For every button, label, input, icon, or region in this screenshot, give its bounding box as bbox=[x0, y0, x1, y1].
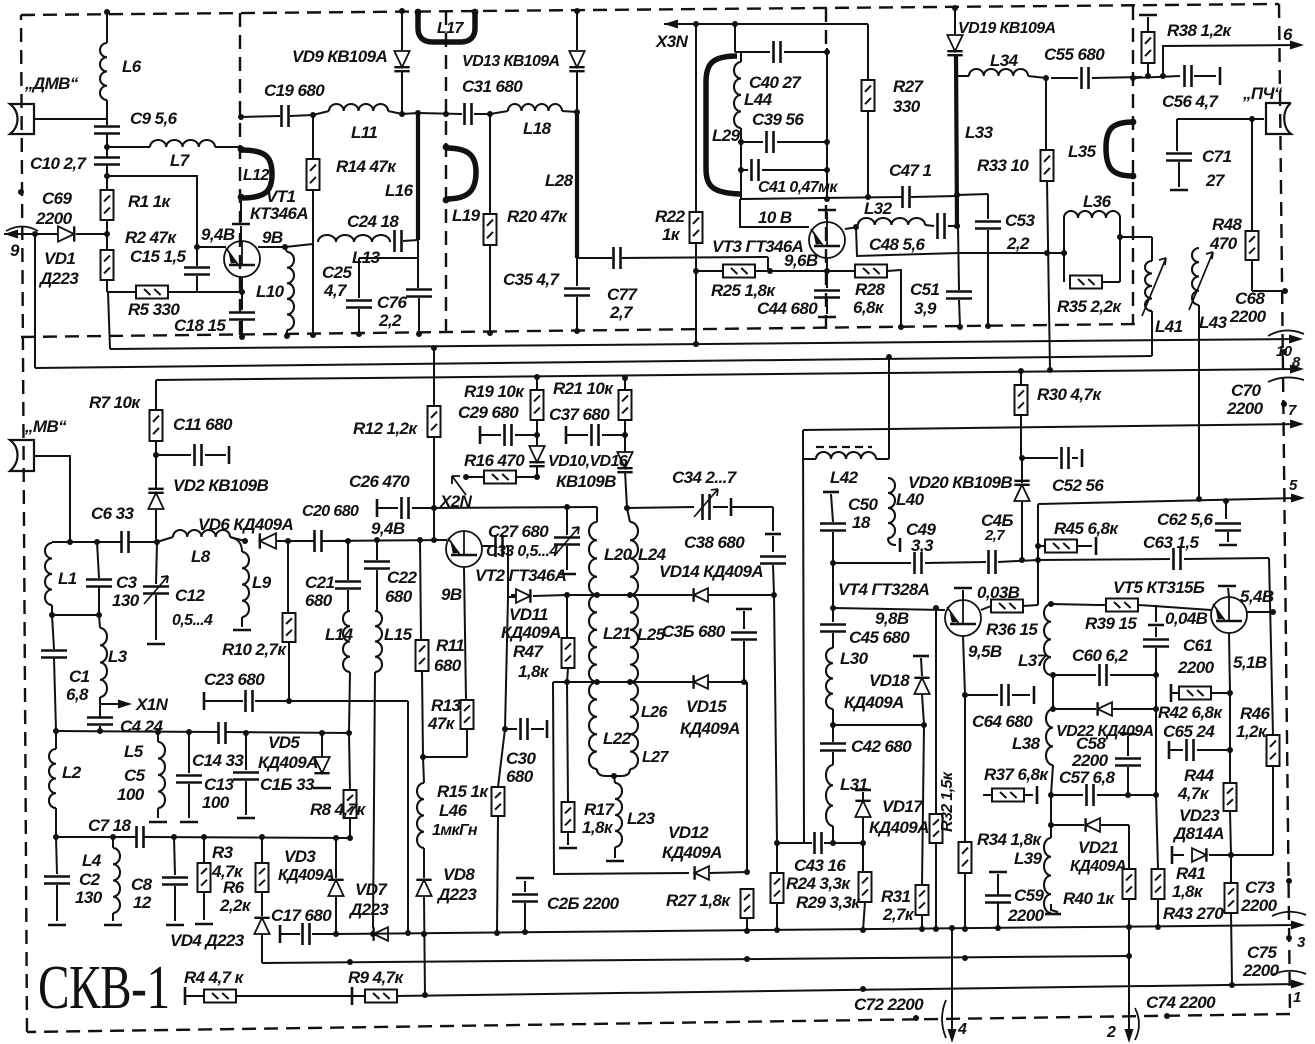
wire L28 bottom bbox=[576, 258, 578, 286]
svg-text:330: 330 bbox=[893, 97, 921, 116]
varicap VD6 bbox=[260, 533, 276, 548]
wire L1/C3 bottom row bbox=[52, 614, 99, 616]
resistor R10 bbox=[283, 613, 296, 642]
inductor L38 bbox=[1046, 709, 1053, 765]
svg-text:С25: С25 bbox=[322, 263, 353, 282]
svg-text:С63 1,5: С63 1,5 bbox=[1143, 533, 1199, 552]
wire oscillator bottom row 10V bbox=[741, 197, 902, 199]
capacitor C51 bbox=[958, 226, 959, 290]
resistor R48 column bbox=[1251, 119, 1253, 231]
svg-text:С65 24: С65 24 bbox=[1163, 722, 1215, 741]
VT3 emitter bbox=[826, 258, 828, 271]
inductor L7 bbox=[150, 140, 215, 147]
capacitor C29 row bbox=[479, 426, 482, 444]
inductor L41 variable bbox=[1145, 261, 1152, 311]
capacitor C76 bbox=[417, 258, 419, 288]
svg-text:С47 1: С47 1 bbox=[889, 161, 932, 180]
capacitor C49 bbox=[833, 562, 911, 564]
svg-text:L14: L14 bbox=[325, 625, 354, 644]
svg-text:VD7: VD7 bbox=[355, 880, 388, 899]
svg-text:L6: L6 bbox=[122, 57, 142, 76]
svg-text:С35 4,7: С35 4,7 bbox=[503, 270, 560, 289]
inductor L17 thick loop bbox=[418, 13, 475, 42]
wire PCH row bbox=[1177, 118, 1264, 120]
inductor L36 bbox=[1064, 211, 1120, 218]
resistor R15 column bbox=[505, 597, 508, 729]
svg-text:С27 680: С27 680 bbox=[488, 522, 549, 541]
inductor L32 bbox=[858, 218, 925, 225]
capacitor C17 row bbox=[279, 925, 282, 943]
resistor R44 bbox=[1229, 750, 1231, 783]
capacitor C45 bbox=[832, 585, 834, 622]
svg-text:С10 2,7: С10 2,7 bbox=[30, 154, 87, 173]
capacitor C65 row bbox=[1229, 693, 1231, 750]
svg-text:L4: L4 bbox=[82, 851, 102, 870]
svg-text:С23 680: С23 680 bbox=[204, 670, 265, 689]
wire tank mid row bbox=[511, 594, 515, 596]
bus wire 2 tuning line bbox=[35, 356, 1152, 368]
svg-text:КД409А: КД409А bbox=[278, 867, 334, 884]
capacitor C59 bbox=[989, 871, 1007, 874]
svg-text:С60 6,2: С60 6,2 bbox=[1072, 646, 1128, 665]
svg-text:2,7: 2,7 bbox=[609, 303, 634, 322]
svg-text:С42 680: С42 680 bbox=[851, 737, 912, 756]
svg-text:VD5: VD5 bbox=[268, 733, 300, 752]
svg-text:КД409А: КД409А bbox=[662, 843, 722, 862]
capacitor C57 row bbox=[1051, 794, 1083, 796]
svg-text:R1 1к: R1 1к bbox=[128, 192, 172, 211]
svg-text:С52 56: С52 56 bbox=[1052, 476, 1104, 495]
inductor L15 bbox=[375, 611, 382, 672]
svg-text:VD17: VD17 bbox=[882, 797, 924, 816]
node X3N branch bbox=[693, 21, 699, 27]
wire C10 down to R1 bbox=[106, 165, 108, 190]
svg-text:R38 1,2к: R38 1,2к bbox=[1167, 21, 1232, 40]
wire W6 main row bbox=[1038, 559, 1170, 560]
svg-text:R44: R44 bbox=[1184, 766, 1215, 785]
svg-text:С2: С2 bbox=[79, 870, 101, 889]
capacitor C58 bbox=[1120, 733, 1136, 736]
svg-text:2200: 2200 bbox=[1229, 307, 1267, 326]
svg-text:VD15: VD15 bbox=[686, 697, 727, 716]
resistor R26 lower bbox=[746, 682, 748, 872]
node L7 tap bbox=[104, 144, 110, 150]
svg-text:18: 18 bbox=[852, 513, 871, 532]
svg-text:С3: С3 bbox=[116, 573, 138, 592]
svg-text:VT4 ГТ328А: VT4 ГТ328А bbox=[838, 580, 930, 599]
inductor L2 bbox=[49, 749, 56, 808]
svg-text:3: 3 bbox=[1297, 934, 1306, 951]
svg-text:R3: R3 bbox=[212, 843, 234, 862]
svg-text:2200: 2200 bbox=[1007, 906, 1045, 925]
svg-text:R32 1,5к: R32 1,5к bbox=[939, 771, 956, 832]
resistor R10 column bbox=[287, 541, 289, 613]
svg-text:L44: L44 bbox=[744, 90, 773, 109]
capacitor C13 bbox=[188, 733, 190, 773]
svg-text:„ПЧ“: „ПЧ“ bbox=[1242, 84, 1283, 103]
node oscillator top bbox=[732, 21, 738, 27]
node L1 top bbox=[51, 605, 53, 615]
resistor R16 bbox=[484, 471, 516, 484]
X1N arrow bbox=[99, 697, 101, 717]
inductor L5 bbox=[158, 742, 165, 808]
capacitor C43 row bbox=[777, 842, 812, 844]
svg-text:Д223: Д223 bbox=[38, 269, 79, 288]
svg-text:2200: 2200 bbox=[1071, 751, 1109, 770]
capacitor C41 row bbox=[738, 167, 744, 173]
svg-text:R2 47к: R2 47к bbox=[125, 228, 177, 247]
svg-text:9В: 9В bbox=[262, 228, 283, 247]
pin 4 shield arc bbox=[942, 1000, 946, 1038]
capacitor C52 row bbox=[1022, 457, 1058, 459]
wire tank second row bbox=[553, 681, 744, 683]
svg-text:R7 10к: R7 10к bbox=[89, 393, 141, 412]
svg-text:С11 680: С11 680 bbox=[173, 415, 233, 434]
svg-text:С1: С1 bbox=[69, 667, 90, 686]
resistor R1 bbox=[101, 190, 114, 220]
svg-text:R25 1,8к: R25 1,8к bbox=[711, 281, 776, 300]
svg-text:L27: L27 bbox=[642, 749, 669, 766]
wire C53 row bbox=[954, 192, 960, 198]
svg-text:С44 680: С44 680 bbox=[757, 299, 818, 318]
svg-text:L33: L33 bbox=[965, 123, 994, 142]
svg-text:4,7: 4,7 bbox=[323, 281, 348, 300]
svg-text:Д223: Д223 bbox=[436, 885, 477, 904]
varicap VD2 bbox=[148, 493, 163, 509]
svg-text:2200: 2200 bbox=[1242, 961, 1280, 980]
X3N arrow bbox=[664, 20, 678, 29]
capacitor C15 bbox=[184, 268, 210, 275]
svg-text:VT5 КТ315Б: VT5 КТ315Б bbox=[1113, 578, 1205, 597]
resistor R38 bbox=[1142, 32, 1155, 63]
svg-text:С1Б 33: С1Б 33 bbox=[260, 775, 315, 794]
svg-text:С37 680: С37 680 bbox=[549, 405, 610, 424]
svg-text:470: 470 bbox=[1209, 234, 1238, 253]
feedback wire from C10 node to VT1 base bbox=[107, 176, 197, 266]
svg-text:R40 1к: R40 1к bbox=[1063, 889, 1115, 908]
svg-text:R11: R11 bbox=[436, 636, 464, 655]
wire 10V to VT3 base bbox=[740, 199, 809, 227]
wire MV to C6 row bbox=[34, 456, 70, 542]
capacitor C33 variable bbox=[566, 507, 568, 535]
inductor L10 bbox=[287, 252, 294, 330]
inductor L8 bbox=[173, 530, 230, 537]
svg-text:130: 130 bbox=[75, 888, 103, 907]
wire L36 to L41 bbox=[1120, 236, 1152, 238]
resistor R20 column bbox=[489, 114, 491, 214]
wire L30 to VD18 row bbox=[833, 724, 924, 726]
resistor R22 column bbox=[695, 24, 697, 212]
svg-text:1,2к: 1,2к bbox=[1236, 722, 1268, 741]
bus wire 5 to pin 5 bbox=[1038, 498, 1299, 504]
wire L11 node to L16 bbox=[402, 113, 418, 114]
diode VD17 bbox=[855, 789, 871, 792]
node pin9 branch bbox=[32, 231, 38, 237]
svg-text:R48: R48 bbox=[1212, 215, 1243, 234]
VT2 emitter column bbox=[464, 567, 466, 700]
svg-text:С18 15: С18 15 bbox=[174, 316, 226, 335]
svg-text:3,9: 3,9 bbox=[914, 299, 937, 318]
svg-text:680: 680 bbox=[434, 656, 462, 675]
svg-text:7: 7 bbox=[1288, 402, 1297, 419]
wire C23 row to corner x408 bbox=[289, 700, 408, 702]
svg-text:VD6 КД409А: VD6 КД409А bbox=[198, 515, 293, 534]
inductor L16 thick line bbox=[416, 113, 420, 240]
svg-text:С26 470: С26 470 bbox=[349, 472, 410, 491]
resistor R21 column bbox=[624, 378, 626, 390]
capacitor C36 bbox=[736, 608, 752, 611]
svg-text:0,5...4: 0,5...4 bbox=[172, 612, 213, 629]
diode VD1 bbox=[58, 226, 74, 241]
svg-text:Х1N: Х1N bbox=[135, 695, 169, 714]
svg-text:R24 3,3к: R24 3,3к bbox=[786, 874, 851, 893]
diode VD15 bbox=[694, 675, 708, 689]
wire row y837 bbox=[56, 836, 136, 838]
svg-text:L42: L42 bbox=[830, 468, 859, 487]
svg-text:С43 16: С43 16 bbox=[794, 856, 846, 875]
svg-text:L34: L34 bbox=[990, 51, 1019, 70]
UHF box bottom dashed line bbox=[21, 324, 1137, 337]
capacitor C30 row bbox=[505, 728, 517, 730]
inductor L23 bbox=[615, 783, 622, 847]
emitter wire to L10 bbox=[258, 246, 285, 248]
svg-text:С31 680: С31 680 bbox=[462, 77, 523, 96]
dashed coupling mark above L42 bbox=[816, 446, 872, 448]
varicap VD13 bbox=[569, 51, 584, 67]
svg-text:R5 330: R5 330 bbox=[128, 300, 180, 319]
resistor R41 bbox=[1230, 855, 1232, 883]
svg-text:VT2 ГТ346А: VT2 ГТ346А bbox=[475, 566, 567, 585]
pin 4 column bbox=[951, 928, 953, 1037]
svg-text:VD14 КД409А: VD14 КД409А bbox=[659, 562, 763, 581]
capacitor C73 feedthrough bbox=[1286, 878, 1292, 884]
wire emitter rail right bbox=[196, 280, 198, 292]
bus wire 1 to pin 10 bbox=[110, 339, 1297, 349]
diode VD5 bbox=[321, 733, 323, 757]
VT3 collector to L32 bbox=[845, 227, 858, 229]
capacitor C34 variable bbox=[703, 494, 710, 520]
svg-text:9,5В: 9,5В bbox=[968, 642, 1002, 661]
pin 10 shield arc bbox=[1268, 330, 1304, 336]
svg-text:С70: С70 bbox=[1231, 381, 1262, 400]
svg-text:L15: L15 bbox=[384, 625, 413, 644]
capacitor C26 row bbox=[376, 499, 379, 517]
capacitor C55 bbox=[1082, 67, 1089, 89]
UHF box divider dashed x=240 bbox=[239, 13, 241, 336]
svg-text:С64 680: С64 680 bbox=[972, 712, 1033, 731]
wire L16 node to C31 bbox=[418, 113, 462, 114]
capacitor C77 bbox=[614, 247, 621, 269]
svg-text:VD18: VD18 bbox=[869, 671, 910, 690]
capacitor C8 bbox=[174, 837, 175, 875]
svg-text:„ДМВ“: „ДМВ“ bbox=[24, 74, 79, 93]
svg-text:R15 1к: R15 1к bbox=[437, 782, 489, 801]
capacitor C64 row bbox=[965, 694, 998, 696]
svg-text:КД409А: КД409А bbox=[844, 693, 904, 712]
resistor R9 row bbox=[351, 987, 354, 1005]
wire tank top left bbox=[434, 507, 597, 508]
wire R1 to R2 bbox=[106, 220, 108, 250]
svg-text:С17 680: С17 680 bbox=[271, 906, 332, 925]
capacitor C4 bbox=[87, 718, 113, 725]
svg-text:С73: С73 bbox=[1245, 878, 1276, 897]
diode VD18 bbox=[913, 655, 929, 658]
svg-text:2,2к: 2,2к bbox=[219, 896, 252, 915]
diode VD4 bbox=[261, 892, 263, 916]
svg-text:С76: С76 bbox=[377, 293, 408, 312]
svg-text:Д814А: Д814А bbox=[1172, 824, 1224, 843]
svg-text:С34 2...7: С34 2...7 bbox=[672, 468, 738, 487]
svg-text:1к: 1к bbox=[662, 225, 681, 244]
resistor R35 bbox=[1070, 276, 1102, 289]
node top border x107 bbox=[104, 9, 110, 15]
svg-text:R47: R47 bbox=[513, 642, 545, 661]
capacitor C22 bbox=[376, 540, 378, 560]
capacitor C72 feedthrough bbox=[913, 1015, 919, 1021]
svg-text:VD11: VD11 bbox=[509, 605, 548, 624]
inductor L4 bbox=[113, 848, 120, 913]
inductor L6 bbox=[100, 43, 107, 100]
resistor R12 column bbox=[433, 348, 435, 406]
svg-text:R27: R27 bbox=[893, 77, 925, 96]
UHF box divider dashed x=446 bbox=[445, 11, 447, 334]
capacitor C37 row bbox=[565, 426, 568, 444]
varicap VD10 bbox=[529, 446, 544, 462]
svg-text:1,8к: 1,8к bbox=[582, 818, 614, 837]
wire L37 to VD22 row bbox=[1051, 674, 1053, 676]
capacitor C56 bbox=[1185, 65, 1192, 87]
resistor R34 bbox=[959, 842, 972, 873]
capacitor C44 bbox=[826, 271, 828, 288]
oscillator loop left side bbox=[553, 682, 689, 874]
varicap VD9 bbox=[394, 51, 409, 67]
svg-text:R30 4,7к: R30 4,7к bbox=[1037, 385, 1102, 404]
svg-text:R28: R28 bbox=[855, 280, 886, 299]
capacitor C35 bbox=[564, 289, 590, 296]
svg-text:L16: L16 bbox=[385, 181, 414, 200]
node VT1 base bbox=[194, 244, 200, 250]
svg-text:680: 680 bbox=[305, 591, 333, 610]
svg-text:4,7к: 4,7к bbox=[1177, 784, 1210, 803]
svg-text:2200: 2200 bbox=[1226, 399, 1264, 418]
svg-text:VD3: VD3 bbox=[284, 847, 316, 866]
svg-text:R20 47к: R20 47к bbox=[507, 207, 568, 226]
svg-text:6: 6 bbox=[1283, 25, 1293, 44]
svg-text:С30: С30 bbox=[506, 749, 537, 768]
svg-text:L17: L17 bbox=[437, 20, 464, 37]
node VD1 junction bbox=[104, 231, 110, 237]
svg-text:1мкГн: 1мкГн bbox=[432, 822, 478, 839]
svg-text:R14 47к: R14 47к bbox=[336, 157, 397, 176]
wire L12 to VT1 collector bbox=[240, 195, 242, 222]
svg-text:R41: R41 bbox=[1176, 864, 1206, 883]
svg-text:L29: L29 bbox=[712, 126, 741, 145]
VT4 collector terminal bbox=[962, 590, 964, 600]
resistor R43 body bbox=[1152, 869, 1165, 899]
svg-text:Д223: Д223 bbox=[348, 900, 389, 919]
svg-text:L5: L5 bbox=[124, 742, 144, 761]
wire C34 top: C38 top wire bbox=[731, 506, 773, 508]
inductor L42 bbox=[816, 452, 876, 459]
wire VD23 node to R46 column bbox=[1231, 854, 1273, 856]
resistor R2 bbox=[101, 250, 114, 280]
svg-text:С56 4,7: С56 4,7 bbox=[1162, 92, 1219, 111]
svg-text:9,6В: 9,6В bbox=[784, 251, 818, 270]
capacitor C9 bbox=[94, 127, 120, 134]
wire R11/R13 bottoms bbox=[423, 756, 467, 758]
svg-text:R42 6,8к: R42 6,8к bbox=[1158, 703, 1223, 722]
svg-text:L8: L8 bbox=[191, 547, 211, 566]
inductor L1 bbox=[51, 542, 53, 543]
capacitor C18 bbox=[241, 292, 243, 310]
wire base to VT1 bbox=[197, 246, 226, 248]
svg-text:L41: L41 bbox=[1155, 317, 1183, 336]
MV antenna connector bbox=[10, 440, 34, 471]
wire tank top right bbox=[627, 507, 694, 508]
svg-text:С29 680: С29 680 bbox=[458, 403, 519, 422]
inductor L24 bbox=[624, 505, 630, 511]
svg-text:С62 5,6: С62 5,6 bbox=[1157, 510, 1213, 529]
svg-text:С50: С50 bbox=[848, 495, 879, 514]
svg-text:R46: R46 bbox=[1240, 704, 1271, 723]
resistor R43 bbox=[1156, 795, 1158, 869]
capacitor C48 bbox=[925, 225, 934, 226]
VT1 collector terminal bar bbox=[232, 223, 250, 226]
transistor VT3 bbox=[809, 222, 845, 258]
svg-text:130: 130 bbox=[112, 591, 140, 610]
pin 9 entry wire with arrow bbox=[4, 233, 58, 235]
capacitor C12 variable bbox=[156, 542, 157, 584]
svg-text:L22: L22 bbox=[603, 729, 632, 748]
svg-text:„МВ“: „МВ“ bbox=[24, 417, 67, 436]
svg-text:С53: С53 bbox=[1005, 211, 1036, 230]
wire R2 to R5 node bbox=[106, 280, 108, 292]
svg-text:L28: L28 bbox=[545, 171, 574, 190]
capacitor C68 feedthrough bbox=[1252, 290, 1285, 292]
resistor R24 bbox=[776, 843, 778, 873]
capacitor C38 bbox=[772, 507, 774, 531]
UHF box divider dashed x=826 bbox=[825, 8, 827, 46]
wire VD1 to node bbox=[76, 233, 107, 235]
inductor L39 bbox=[1044, 838, 1051, 913]
svg-text:КД409А: КД409А bbox=[869, 818, 929, 837]
svg-text:L23: L23 bbox=[627, 809, 656, 828]
svg-text:L30: L30 bbox=[840, 649, 869, 668]
resistor R14 column bbox=[312, 117, 314, 159]
resistor R21 bbox=[619, 390, 632, 420]
PCH connector bbox=[1266, 103, 1291, 134]
svg-text:С6 33: С6 33 bbox=[91, 504, 135, 523]
wire R5 row bbox=[107, 291, 136, 293]
svg-text:СКВ-1: СКВ-1 bbox=[38, 953, 170, 1023]
svg-text:VD9 КВ109А: VD9 КВ109А bbox=[292, 47, 387, 66]
wire C9 to C10 bbox=[106, 134, 108, 157]
resistor R30 bbox=[1020, 371, 1022, 385]
inductor L26 L27 bbox=[630, 682, 638, 769]
svg-text:С15 1,5: С15 1,5 bbox=[130, 247, 186, 266]
resistor R19 bbox=[531, 390, 544, 420]
resistor R17 bbox=[562, 802, 575, 832]
capacitor C7 bbox=[137, 826, 144, 848]
svg-text:R17: R17 bbox=[584, 800, 616, 819]
svg-text:L12: L12 bbox=[243, 167, 269, 184]
node bus2 branch x889 bbox=[886, 354, 892, 360]
inductor L30 bbox=[826, 648, 833, 709]
diode VD11 bbox=[516, 589, 530, 603]
diode VD3 bbox=[335, 838, 337, 878]
svg-text:VD19 КВ109А: VD19 КВ109А bbox=[958, 20, 1056, 37]
svg-text:VD8: VD8 bbox=[443, 865, 475, 884]
